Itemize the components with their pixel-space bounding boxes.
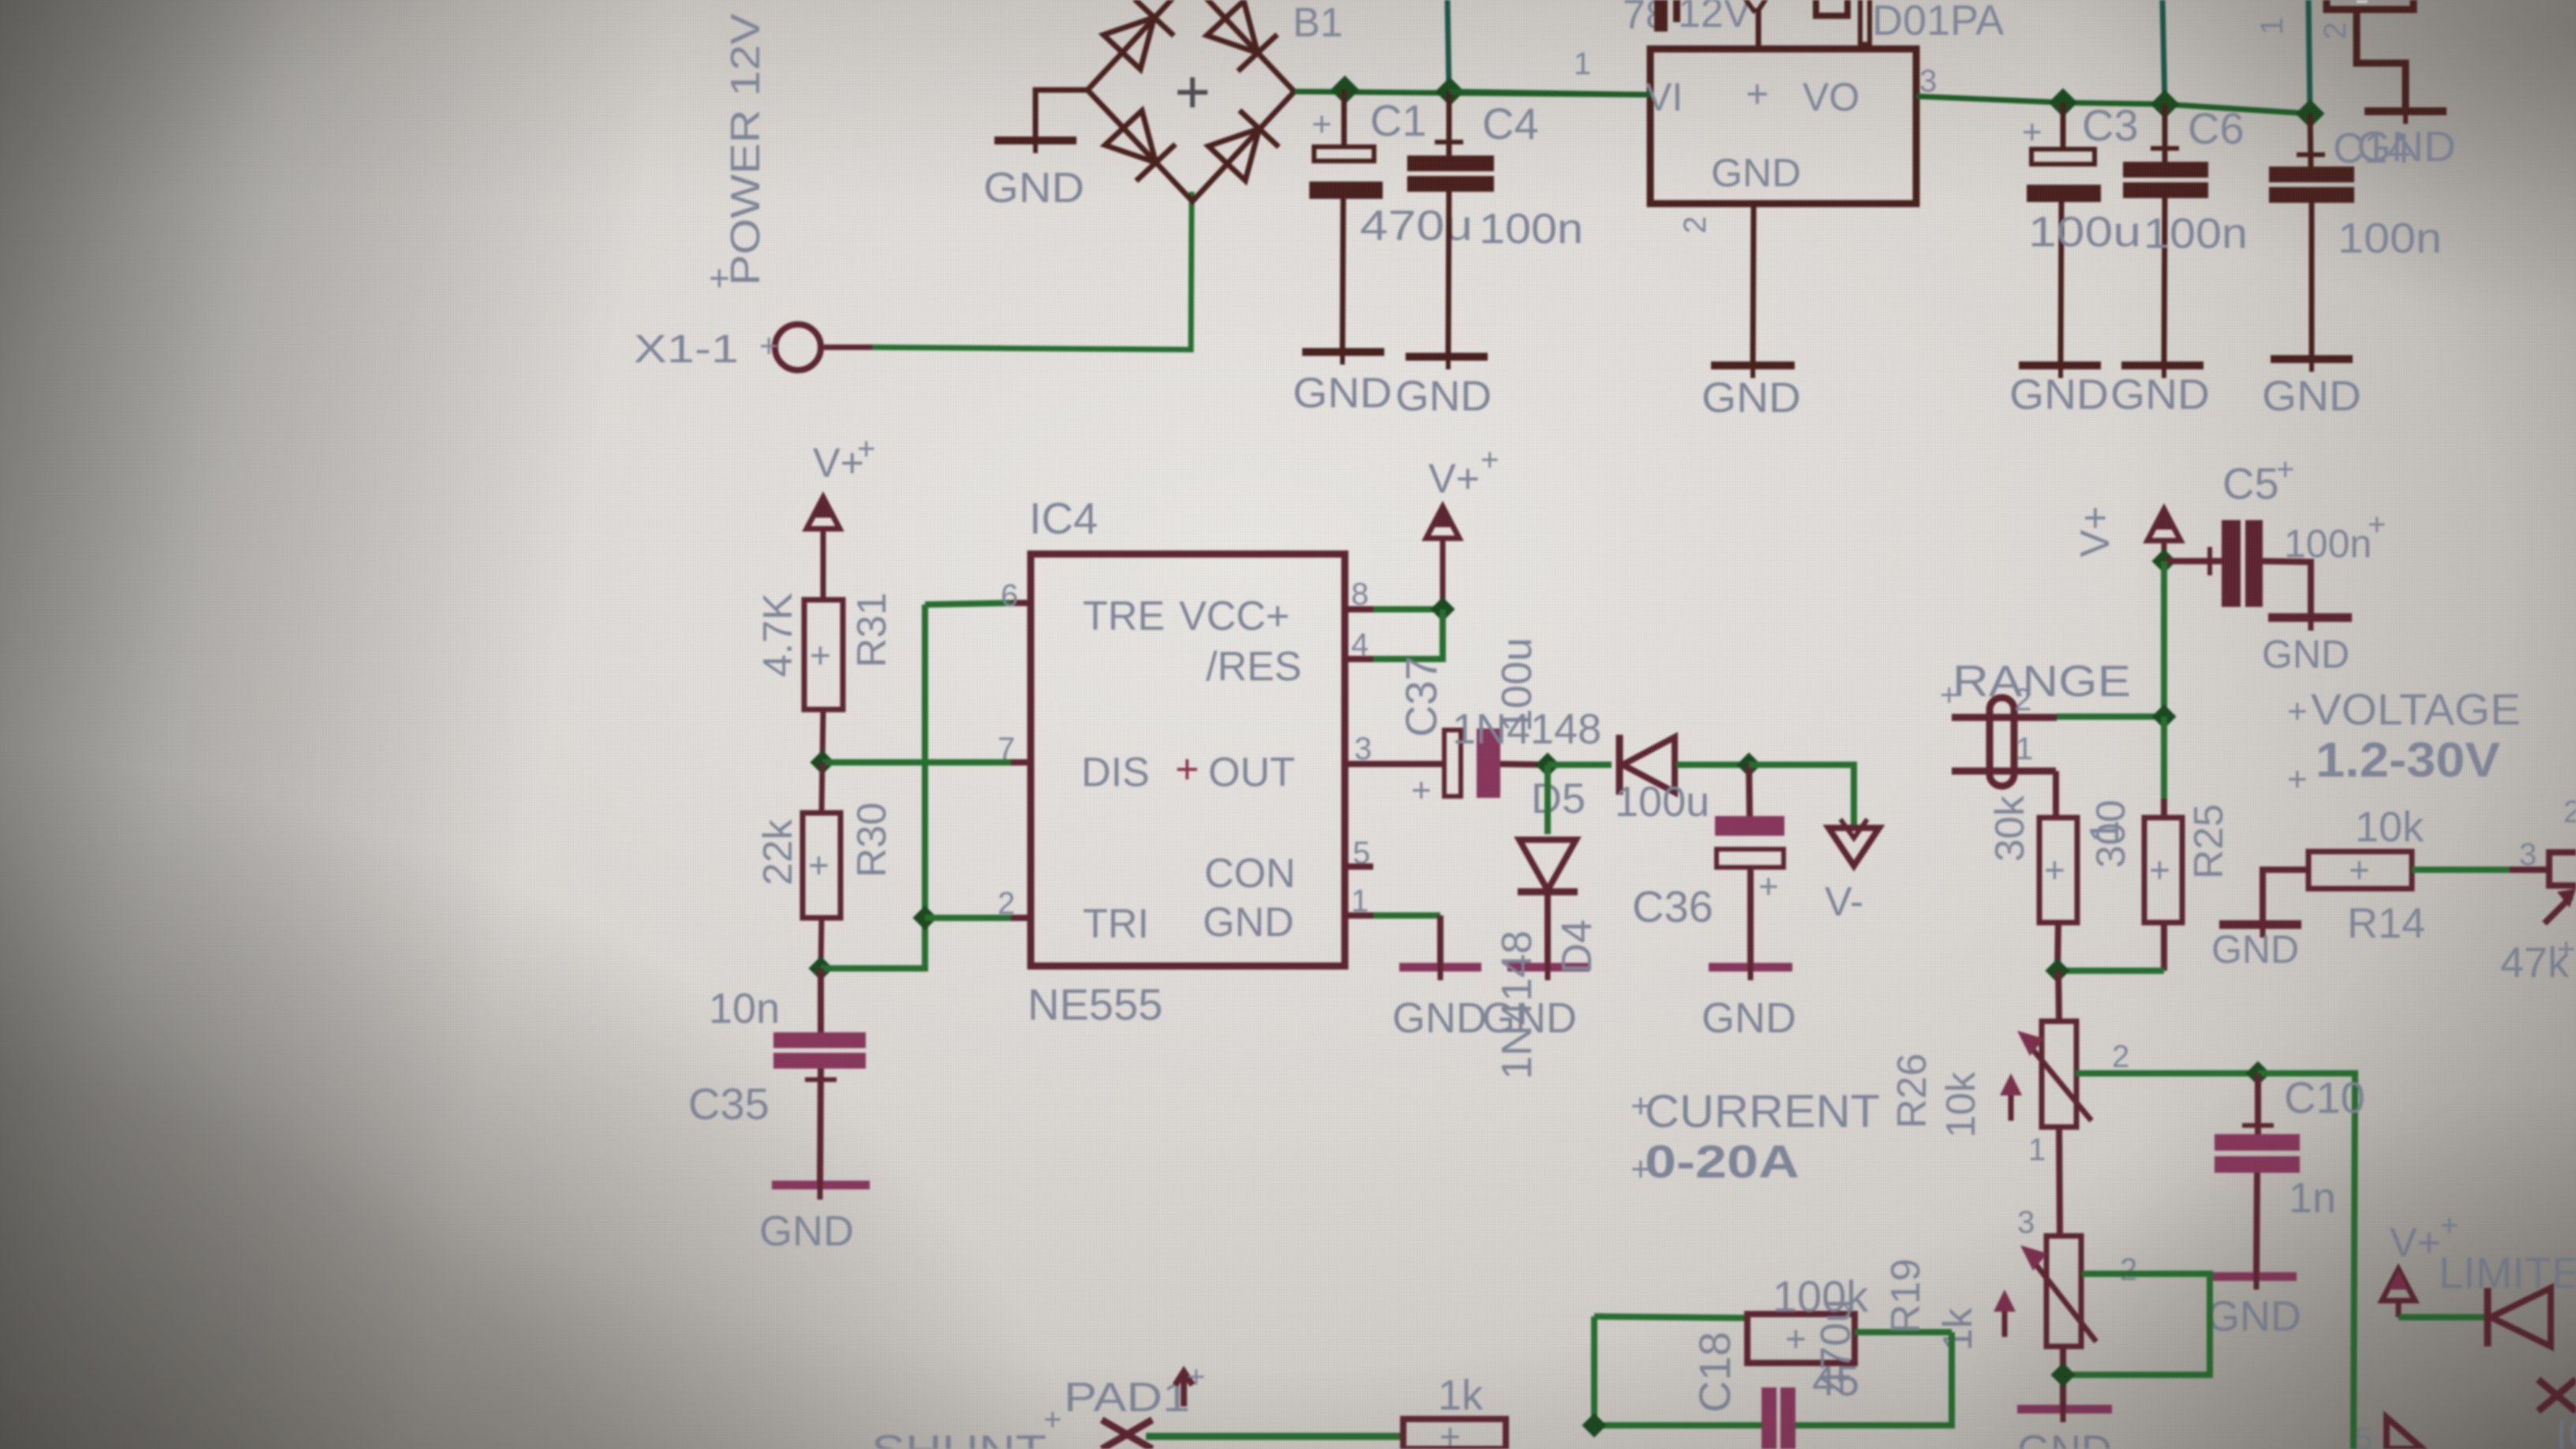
- resistor R19 100k (horizontal): [1594, 1314, 1952, 1363]
- junction at pin 2 feed: [912, 905, 937, 930]
- capacitor C36 100u: [1702, 765, 1796, 1042]
- ground (IC4 pin 1): [1373, 915, 1487, 1042]
- resistor 30k: [2039, 818, 2077, 971]
- wire from top edge down to C6 node: [2162, 0, 2165, 104]
- power V- symbol: [1825, 819, 1879, 925]
- trimmer 47k (right edge, cut): [2544, 795, 2576, 923]
- package drawing D01PA (cut at top): [1654, 0, 2004, 49]
- junction C36 node: [1736, 752, 1761, 777]
- resistor R14 10k (horizontal): [2211, 849, 2412, 972]
- timer IC4 NE555 box: [1031, 554, 1345, 966]
- wire second trimmer wiper loop: [2063, 1274, 2210, 1375]
- resistor R31 4.7K: [804, 600, 843, 762]
- junction C10 node: [2245, 1061, 2270, 1085]
- pin 5 stub: [1345, 836, 1373, 871]
- wire R26 wiper to C10 node: [2076, 1070, 2258, 1076]
- wire 30k/R25 bottom join: [2057, 968, 2164, 974]
- wire from top edge down to C14 node: [2308, 0, 2310, 114]
- wire PAD1 to 1k resistor: [1146, 1433, 1403, 1440]
- label RANGE: [1940, 656, 2131, 713]
- junction node A (R31/R30/pin7): [810, 750, 834, 774]
- pin 6 stub: [1001, 578, 1031, 613]
- resistor R25: [2144, 717, 2182, 971]
- regulator IC 78L12 box: [1646, 49, 1916, 204]
- ground (regulator pin 2): [1678, 204, 1801, 421]
- bridge rectifier B1: [1088, 0, 1294, 201]
- power V+ symbol (IC4 pins 8/4): [1426, 443, 1499, 609]
- resistor 1k (bottom, cut): [1403, 1416, 1506, 1449]
- trimmer second (1k): [1994, 1205, 2137, 1449]
- pin 1 stub: [1345, 884, 1373, 919]
- pin 7 stub: [998, 732, 1031, 766]
- wire to pin 2: [925, 915, 1011, 921]
- label 1.2-30V: [2287, 733, 2500, 799]
- label PAD1: [1064, 1360, 1205, 1421]
- pin 3 stub: [1345, 732, 1444, 766]
- trimmer R26 10k: [2000, 971, 2129, 1236]
- capacitor C14 100n: [2262, 114, 2361, 420]
- value 47k: [2500, 932, 2575, 987]
- label C5: [2222, 452, 2294, 508]
- junction RANGE/V+/R25: [2151, 704, 2176, 728]
- wire R14 to trimmer pin3: [2412, 837, 2549, 872]
- junction node C14: [2296, 99, 2325, 129]
- label 78L12V (cut at top): [1623, 0, 1751, 38]
- label 0-20A: [1631, 1136, 1799, 1189]
- capacitor C4 100n: [1395, 92, 1494, 420]
- pin 2 stub: [998, 886, 1031, 921]
- label CURRENT: [1631, 1086, 1880, 1137]
- wire node B to vertical feed: [821, 918, 925, 968]
- capacitor C5 100n (horizontal): [2164, 520, 2352, 676]
- junction node C6: [2151, 90, 2180, 119]
- connector pin header top right (cut): [2255, 0, 2413, 110]
- wire from top edge down to C4 node: [1447, 0, 1449, 92]
- junction at V+ pin8: [1430, 597, 1455, 621]
- junction node B (R30/C35/pin2 net): [808, 956, 833, 980]
- junction node C4: [1436, 77, 1465, 107]
- junction node C1: [1331, 76, 1360, 105]
- capacitor C6 100n: [2110, 104, 2210, 418]
- op-amp corner (bottom right, cut): [2355, 1409, 2576, 1449]
- junction node C3: [2049, 88, 2078, 118]
- wire X1-1 to bridge: [872, 192, 1192, 350]
- diode D5 1N4148: [1548, 735, 1749, 795]
- power V+ symbol (right, rotated label): [2072, 506, 2181, 561]
- junction D5/D4 node: [1535, 752, 1559, 777]
- capacitor C1 470u: [1293, 90, 1392, 417]
- junction C18 left: [1582, 1413, 1606, 1437]
- vertical wire pins 6/2: [922, 605, 928, 918]
- pin 4 stub: [1345, 627, 1373, 662]
- wire node A to pin 7: [822, 759, 1011, 766]
- wire regulator output node: [1916, 96, 2310, 114]
- value 100n (C5): [2284, 507, 2386, 566]
- wire V+ node to pin 4: [1373, 609, 1443, 659]
- capacitor C10 1n: [2207, 1073, 2301, 1340]
- wire RANGE pin1 to 30k resistor: [2053, 771, 2059, 818]
- pin 8 stub: [1345, 577, 1373, 612]
- diode (bottom right, cut): [2398, 1288, 2576, 1411]
- vertical label POWER 12V: [709, 13, 769, 298]
- value 470u (C18): [1812, 1299, 1859, 1405]
- power V+ symbol (left): [807, 432, 875, 600]
- label VOLTAGE: [2287, 684, 2521, 734]
- power V+ symbol (bottom right): [2382, 1208, 2458, 1317]
- wire pin 8 to V+: [1373, 606, 1443, 612]
- wire bridge to regulator node: [1294, 92, 1650, 95]
- pad PAD1 (X symbol): [1102, 1420, 1152, 1449]
- junction V+/C5: [2151, 549, 2176, 573]
- junction second trimmer bottom: [2050, 1362, 2075, 1387]
- capacitor C37 100u (horizontal): [1411, 728, 1548, 810]
- capacitor C35 10n: [759, 968, 870, 1255]
- label SHUNT: [871, 1402, 1061, 1449]
- ground (top right): [2357, 107, 2456, 170]
- ground (bridge left): [983, 90, 1088, 212]
- resistor R30 22k: [803, 762, 841, 968]
- wire RANGE pin2 to V+ node: [2057, 713, 2164, 720]
- capacitor C18 (horizontal, bottom edge): [1762, 1332, 1952, 1449]
- junction 30k bottom: [2045, 958, 2069, 983]
- connector X1-1 pad: [759, 324, 872, 370]
- wire C10 node to right corner and down: [2258, 1073, 2355, 1449]
- jumper RANGE (solder jumper): [1952, 683, 2057, 786]
- value 300 (rotated, overlapped): [2082, 799, 2134, 868]
- wire C36 node to V-: [1749, 765, 1854, 826]
- wire V+ down to RANGE node: [2161, 561, 2167, 717]
- wire C18 loop left: [1594, 1316, 1769, 1425]
- capacitor C3 100u: [2009, 103, 2109, 418]
- diode D4 1N4148 (vertical): [1482, 765, 1589, 1042]
- wire to pin 6: [925, 603, 1011, 605]
- pin 1 wire (regulator input): [1450, 47, 1650, 95]
